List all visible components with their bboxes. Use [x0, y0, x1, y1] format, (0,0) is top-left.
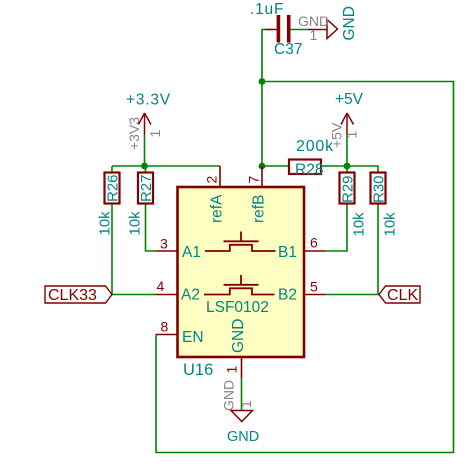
svg-text:B1: B1 — [278, 244, 297, 261]
svg-text:C37: C37 — [274, 41, 302, 58]
junction node top — [259, 78, 266, 85]
junction node refB — [259, 163, 266, 170]
power symbol +3.3V arrow — [139, 113, 152, 134]
op IC body U16 — [178, 187, 305, 357]
capacitor C37 plates — [277, 15, 281, 43]
resistor R27 — [138, 173, 153, 204]
resistor R28 — [289, 160, 321, 175]
pin 1 stub — [241, 357, 243, 378]
svg-text:LSF0102: LSF0102 — [206, 299, 269, 316]
svg-text:1: 1 — [238, 400, 254, 408]
svg-text:10k: 10k — [126, 211, 143, 236]
svg-text:refA: refA — [209, 194, 226, 223]
svg-text:+5V: +5V — [335, 91, 364, 108]
svg-text:GND: GND — [230, 319, 247, 353]
svg-text:refB: refB — [251, 195, 268, 223]
svg-text:10k: 10k — [381, 212, 398, 237]
wire R30 to B2 — [325, 204, 378, 295]
wire top node vertical — [262, 30, 265, 167]
svg-text:R26: R26 — [105, 174, 122, 202]
label CLK — [379, 286, 420, 303]
svg-text:+3V3: +3V3 — [126, 117, 142, 150]
wire refB row left — [262, 165, 289, 167]
pin 2 stub — [219, 166, 221, 187]
transistor pass FET 2 — [204, 275, 275, 295]
svg-text:1: 1 — [224, 366, 240, 374]
svg-text:R27: R27 — [138, 174, 155, 202]
wire R26 top stub — [111, 166, 113, 173]
wire R29 to B1 — [325, 204, 347, 252]
pin 8 stub — [156, 334, 178, 336]
ground symbol top right — [308, 29, 327, 31]
svg-text:10k: 10k — [350, 212, 367, 237]
transistor pass FET 1 — [205, 232, 276, 252]
wire R27 top stub — [145, 166, 147, 173]
svg-text:A1: A1 — [182, 244, 201, 261]
pin 6 stub — [304, 250, 325, 252]
svg-text:A2: A2 — [181, 287, 200, 304]
pin 3 stub — [156, 250, 178, 252]
wire R27 to A1 — [146, 204, 157, 252]
svg-text:EN: EN — [182, 329, 204, 346]
svg-text:3: 3 — [160, 236, 168, 252]
wire refB row right — [321, 166, 378, 173]
junction node 3v3 — [141, 163, 148, 170]
svg-text:GND: GND — [227, 429, 259, 445]
power symbol +5V arrow — [341, 113, 354, 134]
svg-text:CLK: CLK — [387, 287, 418, 304]
wire GND pin1 drop — [241, 378, 243, 410]
wire R29 top stub — [346, 166, 348, 173]
svg-text:1: 1 — [310, 27, 318, 43]
wire EN loop — [156, 82, 454, 453]
svg-text:4: 4 — [157, 278, 165, 294]
svg-text:+5V: +5V — [329, 122, 345, 148]
wire +3.3V drop — [144, 134, 146, 166]
svg-text:+3.3V: +3.3V — [126, 92, 171, 109]
svg-text:10k: 10k — [96, 211, 113, 236]
svg-text:8: 8 — [161, 319, 169, 335]
wire 3v3 row — [112, 165, 220, 167]
resistor R29 — [340, 173, 355, 204]
ground symbol bottom — [231, 411, 253, 422]
svg-text:7: 7 — [246, 176, 262, 184]
svg-text:1: 1 — [344, 131, 360, 139]
svg-text:CLK33: CLK33 — [48, 287, 97, 304]
pin 4 stub — [156, 294, 178, 296]
pin 5 stub — [304, 294, 325, 296]
svg-text:6: 6 — [310, 235, 318, 251]
wire R26 to A2 — [112, 204, 156, 295]
resistor R30 — [371, 173, 386, 204]
svg-text:2: 2 — [204, 176, 220, 184]
resistor R26 — [105, 173, 120, 204]
svg-text:U16: U16 — [183, 361, 213, 379]
svg-text:R30: R30 — [371, 175, 388, 203]
svg-text:R28: R28 — [295, 162, 323, 179]
svg-text:GND: GND — [341, 6, 358, 40]
pin 7 stub — [261, 166, 263, 187]
svg-text:R29: R29 — [340, 175, 357, 203]
svg-text:1: 1 — [147, 130, 163, 138]
label CLK33 — [45, 286, 112, 303]
wire cap right — [291, 29, 309, 31]
svg-text:B2: B2 — [278, 287, 297, 304]
wire +5V drop — [346, 134, 348, 166]
svg-text:5: 5 — [310, 279, 318, 295]
capacitor C37 left pin — [265, 29, 277, 31]
junction node 5v — [344, 163, 351, 170]
svg-text:GND: GND — [221, 380, 237, 411]
svg-text:.1uF: .1uF — [250, 1, 284, 18]
